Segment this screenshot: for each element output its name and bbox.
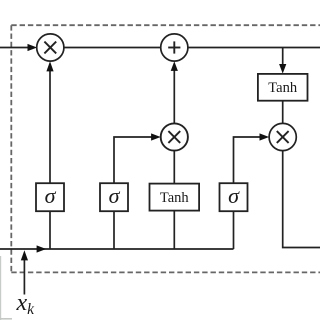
wire S1 up into M1: [46, 61, 53, 183]
sigma box S2 (input gate): [100, 183, 128, 211]
multiply node M3 (output x): [269, 123, 296, 150]
Tanh box T2: [258, 74, 308, 101]
multiply node M1 (forget gate x): [37, 34, 64, 61]
wire M3 to h(k) output (down then right): [283, 150, 320, 247]
svg-text:Tanh: Tanh: [268, 80, 298, 96]
Tanh box T1: [150, 184, 200, 211]
wire S1 down to input bus: [49, 211, 51, 249]
wire S2 down to input bus: [113, 211, 115, 249]
svg-text:σ: σ: [45, 183, 57, 208]
wire S3 elbow into M3: [234, 133, 270, 183]
scan artifact left edge: [0, 256, 2, 320]
svg-text:Tanh: Tanh: [160, 190, 190, 206]
sigma box S3 (output gate): [220, 183, 248, 211]
wire S3 down to input bus: [233, 211, 235, 249]
wire A1 to c(k) output right edge: [188, 47, 320, 49]
wire T1 down to input bus: [173, 211, 175, 249]
cell boundary dashed left: [10, 25, 12, 272]
svg-text:σ: σ: [228, 183, 240, 208]
wire T2 to M3: [282, 101, 284, 124]
input x_k arrow: [21, 250, 28, 294]
wire branch down into Tanh T2: [279, 48, 286, 74]
sigma box S1 (forget gate): [36, 183, 64, 211]
wire M1 to A1: [64, 47, 161, 49]
cell boundary dashed bottom: [11, 271, 320, 273]
svg-text:σ: σ: [109, 183, 121, 208]
wire S2 elbow into M2: [114, 133, 161, 183]
input bus wire (h(k-1)/x(k) line): [0, 245, 234, 252]
wire M2 up into A1: [171, 61, 178, 123]
cell boundary dashed top: [11, 24, 320, 26]
add node A1 (+): [161, 34, 188, 61]
wire Tanh T1 to M2: [173, 150, 175, 183]
multiply node M2 (input x): [161, 123, 188, 150]
scan artifact bottom-left corner: [0, 318, 12, 320]
wire c(k-1) input into M1: [0, 44, 37, 51]
